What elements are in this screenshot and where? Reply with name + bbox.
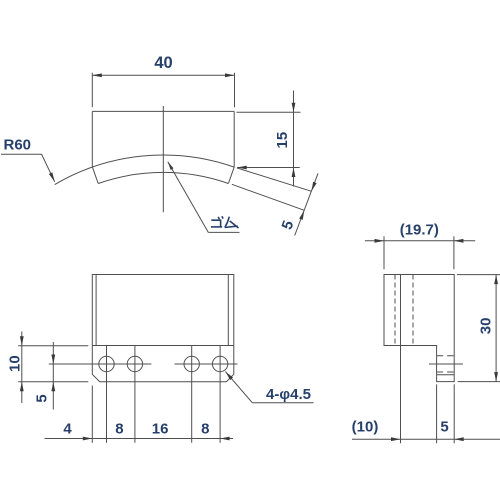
arrow holes leader xyxy=(225,372,233,380)
side bottom extension line at divider xyxy=(400,346,402,444)
dim 10 line xyxy=(21,332,23,404)
dim 15 lower reference line with left arrow xyxy=(237,167,300,169)
arrow dim5 rubber bottom xyxy=(299,210,304,220)
arrow dim(10) xyxy=(391,437,401,441)
arrow dim5 side xyxy=(454,437,464,441)
holes label underline xyxy=(252,402,313,404)
hole 2 vertical centerline xyxy=(134,346,136,443)
side view: solid divider line xyxy=(400,275,402,346)
arrow chain right xyxy=(220,437,230,441)
gomu (rubber) leader xyxy=(168,162,209,233)
arrow dim5 front bottom xyxy=(51,382,55,392)
side view: strip inner solid line xyxy=(437,374,455,376)
arrow R60 xyxy=(49,172,55,181)
front view: flange top edge xyxy=(92,345,234,347)
arrow dim19.7 left xyxy=(375,239,385,243)
arrow dim30 top xyxy=(494,275,498,285)
arrow dim15 horizontal xyxy=(237,166,247,170)
arrowheads xyxy=(20,73,498,441)
side view: hidden hole top xyxy=(437,355,454,357)
svg-text:5: 5 xyxy=(440,418,448,435)
front view: left inner line xyxy=(95,275,97,346)
svg-text:8: 8 xyxy=(201,421,209,438)
top view: vertical centerline xyxy=(162,106,164,212)
hole 3 xyxy=(184,356,199,371)
holes horizontal centerline left segment xyxy=(49,363,152,365)
dim 15 line xyxy=(293,91,295,187)
top view: rubber lower arc xyxy=(98,172,228,183)
dim 30 extension lines xyxy=(457,275,500,382)
dim 5 rubber thickness line xyxy=(295,173,318,235)
hole 4 vertical centerline xyxy=(219,346,221,443)
dim 15 top extension line xyxy=(237,111,301,113)
side bottom dimension line xyxy=(352,438,500,440)
dim 40 extension lines xyxy=(92,73,234,108)
hole 3 vertical centerline xyxy=(191,346,193,443)
top view: rubber right end cut xyxy=(228,167,234,183)
chain left extension line xyxy=(91,386,93,443)
hole 1 xyxy=(99,356,114,371)
arrow gomu leader xyxy=(168,162,174,170)
R60 leader xyxy=(1,154,55,182)
top view: rubber upper arc R60 xyxy=(55,155,235,185)
svg-text:4: 4 xyxy=(63,421,72,438)
dim 10 extension lines xyxy=(18,346,88,382)
dim 19.7 extension lines xyxy=(384,236,454,269)
gomu label underline xyxy=(208,231,239,233)
dim 19.7 line xyxy=(365,240,475,242)
chain dimension line xyxy=(45,438,234,440)
svg-text:(19.7): (19.7) xyxy=(400,222,439,239)
top view: block top edge xyxy=(92,110,234,112)
svg-text:10: 10 xyxy=(6,355,23,372)
svg-text:16: 16 xyxy=(152,421,169,438)
svg-text:R60: R60 xyxy=(4,137,32,154)
hole 2 xyxy=(127,356,142,371)
hole 4 xyxy=(212,356,227,371)
svg-text:30: 30 xyxy=(477,318,494,335)
arrow dim19.7 right xyxy=(454,239,464,243)
arrow dim5 rubber top xyxy=(312,182,317,192)
top view: rubber left end cut xyxy=(92,167,98,184)
side view: hole horizontal centerline xyxy=(429,363,463,365)
top view: block right edge xyxy=(233,111,235,167)
dim 40 line xyxy=(92,74,234,76)
front view: right inner line xyxy=(227,275,229,346)
hole 1 vertical centerline xyxy=(106,346,108,443)
gomu glyph go xyxy=(211,216,223,227)
svg-text:8: 8 xyxy=(115,421,123,438)
arrow dim5 front top xyxy=(51,355,55,365)
gomu glyph mu xyxy=(225,217,239,228)
arrow dim15 top xyxy=(292,103,296,113)
holes horizontal centerline right segment xyxy=(175,363,238,365)
svg-text:(10): (10) xyxy=(352,418,379,435)
holes label leader xyxy=(225,372,252,403)
side view: hidden line right xyxy=(412,275,414,346)
svg-text:5: 5 xyxy=(33,394,50,402)
top view: rubber tail bottom edge xyxy=(232,184,304,210)
top view: rubber tail top edge xyxy=(237,168,312,191)
front view: outline with bottom chamfers xyxy=(92,275,234,382)
arrow dim10 top xyxy=(20,336,24,346)
arrow dim40 left xyxy=(92,73,102,77)
svg-text:4-φ4.5: 4-φ4.5 xyxy=(266,386,311,403)
arrow dim10 bottom xyxy=(20,382,24,392)
top view: block left edge xyxy=(91,111,93,166)
side bottom extension line at step xyxy=(436,384,438,443)
arrow dim30 bottom xyxy=(494,372,498,382)
side view: hidden hole bottom xyxy=(437,371,454,373)
side view: hidden line left xyxy=(394,275,396,346)
arrow dim40 right xyxy=(225,73,235,77)
svg-text:15: 15 xyxy=(274,132,291,149)
arrow dim15 bottom xyxy=(292,168,296,178)
dim 5 front line xyxy=(52,342,54,410)
side view: outline L shape xyxy=(384,275,454,382)
arrow chain left xyxy=(83,437,93,441)
svg-text:40: 40 xyxy=(154,54,172,72)
dim 30 line xyxy=(495,275,497,382)
side bottom extension line at right edge xyxy=(453,384,455,443)
